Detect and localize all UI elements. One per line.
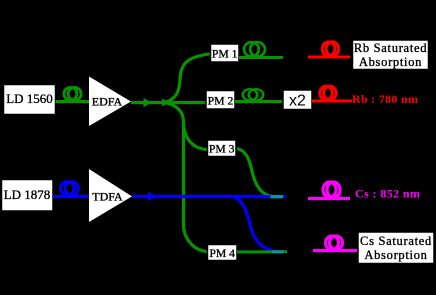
wire junction straight to PM2 (green) [166, 101, 206, 104]
node splitter junction (green) [162, 99, 171, 107]
svg-text:EDFA: EDFA [92, 95, 123, 109]
fiber coil after PM1 (green) [244, 42, 265, 56]
svg-text:Rb Saturated: Rb Saturated [354, 41, 427, 55]
svg-text:Cs Saturated: Cs Saturated [360, 234, 432, 248]
box Rb Saturated Absorption [353, 40, 429, 70]
fiber coil after LD1560 (green) [64, 87, 81, 100]
box Cs Saturated Absorption [358, 232, 434, 264]
svg-text:TDFA: TDFA [92, 189, 123, 203]
box PM 3 [208, 140, 237, 157]
wire into Rb saturated absorption (red) [308, 56, 350, 59]
svg-text:Absorption: Absorption [364, 248, 427, 262]
svg-text:Cs : 852 nm: Cs : 852 nm [355, 186, 420, 200]
fiber coil after LD1878 (blue) [61, 182, 79, 196]
wire LD1560 to EDFA (green) [56, 100, 91, 103]
svg-text:Rb : 780 nm: Rb : 780 nm [352, 92, 418, 106]
arrow on EDFA output wire [144, 98, 152, 107]
label Cs : 852 nm [355, 186, 420, 200]
wire PM2 to x2 (green) [235, 100, 283, 103]
svg-text:LD 1878: LD 1878 [4, 187, 51, 202]
wire x2 output (red) [312, 100, 352, 103]
label Rb : 780 nm [352, 92, 418, 106]
fiber coil Rb 780 (red) [320, 86, 337, 100]
wire PM3 output S-curve down to Cs line (green) [237, 149, 272, 197]
svg-text:PM 2: PM 2 [208, 95, 234, 108]
amplifier TDFA U2 [89, 169, 132, 222]
box LD 1560 [4, 85, 56, 115]
wire blue S-curve down to Cs saturated line [233, 197, 272, 251]
op-amp style amplifier EDFA U1 [89, 77, 131, 127]
fiber coil Cs 852 (magenta) [323, 182, 340, 197]
node merged wire Cs 852 (teal) [271, 195, 286, 198]
box LD 1878 [2, 180, 54, 212]
box PM 4 [208, 245, 238, 261]
box PM 2 [206, 91, 235, 110]
arrow on TDFA output wire [148, 192, 156, 201]
wire LD1878 to TDFA (blue) [53, 195, 89, 198]
fiber coil after PM2 (green) [243, 89, 263, 100]
svg-text:LD 1560: LD 1560 [6, 91, 53, 106]
wire EDFA output (green) [131, 101, 166, 104]
svg-text:PM 4: PM 4 [209, 247, 235, 260]
frequency doubler box x2 [283, 90, 312, 110]
wire junction down-curve then vertical to PM4 (green) [165, 103, 208, 252]
box PM 1 [211, 44, 240, 62]
node merged wire Cs saturated (teal) [272, 250, 287, 253]
fiber coil Cs saturated absorption (magenta) [325, 236, 342, 249]
svg-text:PM 3: PM 3 [209, 143, 235, 156]
wire PM1 output (green) [239, 56, 283, 59]
wire into Cs 852 coil (magenta) [308, 197, 350, 200]
svg-text:x2: x2 [289, 93, 306, 110]
wire PM4 output (green) [237, 250, 273, 253]
wire junction up-curve to PM1 (green) [165, 54, 211, 103]
svg-text:PM 1: PM 1 [212, 48, 238, 61]
wire TDFA output horizontal (blue) [132, 195, 271, 198]
svg-text:Absorption: Absorption [359, 55, 422, 69]
fiber coil Rb saturated absorption (red) [322, 42, 339, 56]
wire into Cs saturated coil (magenta) [313, 249, 357, 252]
wire branch from vertical to PM3 (green) [184, 124, 209, 150]
